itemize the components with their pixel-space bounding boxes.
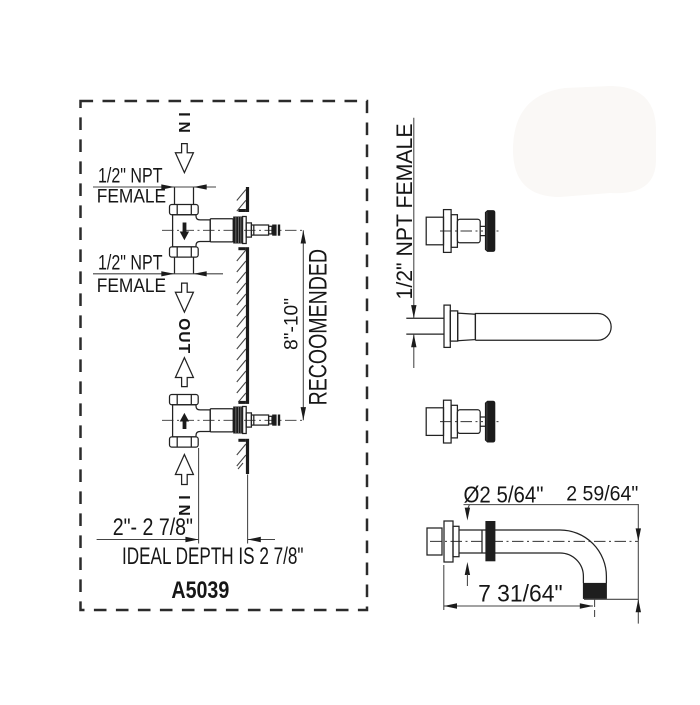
- handle trim H1 (top): [426, 210, 498, 253]
- escutcheon plate 2: [451, 215, 457, 248]
- hollow arrow IN bottom (up): [175, 455, 193, 485]
- svg-text:8"-10": 8"-10": [281, 298, 303, 350]
- spout tip centerline: [594, 599, 596, 617]
- wall hatching upper: [237, 190, 246, 212]
- svg-text:2 59/64": 2 59/64": [566, 483, 638, 506]
- hollow arrow IN top (down): [175, 144, 193, 173]
- svg-text:IN: IN: [175, 112, 192, 133]
- svg-text:OUT: OUT: [175, 318, 192, 354]
- mid spout collar: [458, 313, 476, 341]
- hollow arrow OUT upper (down): [175, 283, 193, 312]
- dimension line D2 (1/2 NPT lower): [93, 271, 223, 276]
- mid spout plate 2: [450, 311, 457, 341]
- dimension D8 (7 31/64): [444, 565, 593, 610]
- mid spout supply tube: [406, 318, 444, 334]
- spout wall nipple block: [427, 528, 442, 555]
- pipe above valve V1: [175, 187, 194, 205]
- spout escutcheon plate: [444, 521, 453, 562]
- dimension D7 (2 59/64): [584, 504, 641, 624]
- centerline: [440, 230, 499, 232]
- spout centerline: [430, 540, 638, 542]
- svg-text:1/2" NPT: 1/2" NPT: [98, 163, 163, 187]
- flow arrow (down) in valve V1: [180, 223, 189, 241]
- dimension D3 vertical 8-10: [301, 230, 306, 420]
- dimension line D1 (1/2 NPT top): [93, 184, 216, 189]
- svg-text:Ø2 5/64": Ø2 5/64": [464, 482, 544, 508]
- svg-text:IDEAL DEPTH IS 2 7/8": IDEAL DEPTH IS 2 7/8": [122, 543, 304, 570]
- spout bend outer: [560, 530, 606, 583]
- extension line from valve V2: [198, 448, 200, 544]
- hollow arrow OUT lower (up): [175, 358, 193, 387]
- svg-text:1/2" NPT FEMALE: 1/2" NPT FEMALE: [392, 124, 417, 300]
- handle body: [457, 219, 480, 243]
- spout plate 2: [453, 526, 459, 556]
- handle trim H2 (bottom): [426, 400, 498, 443]
- spout neck: [459, 530, 560, 553]
- spout bend inner: [560, 553, 583, 583]
- escutcheon plate: [444, 210, 452, 253]
- faint background smudge: [513, 86, 656, 197]
- extension line from wall: [247, 475, 249, 544]
- svg-text:7 31/64": 7 31/64": [478, 581, 562, 608]
- handle stem: [480, 226, 486, 235]
- svg-text:FEMALE: FEMALE: [97, 276, 166, 297]
- pipe below valve V1: [175, 257, 194, 274]
- dimension D4 (2 - 2 7/8): [97, 537, 275, 542]
- svg-text:A5039: A5039: [171, 577, 229, 604]
- handle knob (black): [485, 210, 495, 252]
- wall hatching lower: [237, 444, 246, 469]
- svg-text:FEMALE: FEMALE: [97, 187, 166, 208]
- wall hatching middle: [237, 250, 246, 402]
- svg-text:1/2" NPT: 1/2" NPT: [98, 251, 163, 275]
- spout tip (black): [583, 583, 607, 599]
- wall nipple block: [426, 217, 443, 245]
- spout knurled ring (black): [485, 521, 495, 561]
- wall bar lower segment: [238, 439, 249, 474]
- mid spout tube: [475, 314, 611, 341]
- svg-text:RECOOMENDED: RECOOMENDED: [306, 249, 333, 405]
- svg-text:IN: IN: [175, 495, 192, 516]
- dashed border frame: [81, 101, 368, 610]
- wall bar upper segment: [238, 187, 249, 212]
- flow arrow (up) in valve V2: [180, 413, 189, 429]
- wall bar middle segment: [238, 247, 249, 404]
- valve V1 (top): [162, 205, 303, 258]
- dimension D5 (mid spout 1/2 NPT): [411, 118, 416, 368]
- svg-text:2"- 2 7/8": 2"- 2 7/8": [113, 514, 193, 541]
- valve V2 (bottom): [162, 395, 303, 448]
- leader Ø2 5/64: [464, 505, 639, 586]
- mid spout escutcheon plate: [444, 305, 450, 347]
